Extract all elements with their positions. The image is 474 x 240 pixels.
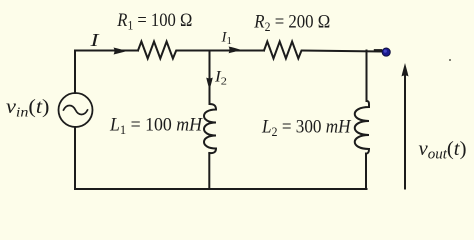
resistor R1 [138,42,179,59]
inductor L1 coil [204,104,216,153]
inductor L2 bottom wire [365,154,367,190]
svg-text:I: I [89,30,100,50]
current arrow I2 [206,77,213,90]
inductor L1 bottom wire [208,153,210,189]
svg-text:L2 = 300 mH: L2 = 300 mH [261,118,352,140]
resistor R2 [264,42,302,59]
wire bottom [75,188,367,190]
wire left vertical lower [74,127,76,189]
voltage source Vin circle [59,93,93,127]
current arrow I1 [229,47,242,54]
speck artifact [449,59,451,61]
wire R2 to output node [302,51,384,52]
wire overdraw step before node [375,49,382,51]
svg-text:vin(t): vin(t) [6,97,50,121]
svg-text:I2: I2 [214,69,227,88]
node output blue dot [382,48,390,56]
inductor L2 branch top wire [366,51,368,102]
inductor L1 branch top wire [209,51,211,105]
voltage source sine [64,106,88,115]
svg-text:I1: I1 [220,29,232,47]
current arrow I [114,48,128,55]
svg-text:R1 = 100 Ω: R1 = 100 Ω [116,11,192,33]
wire R1 to R2 [179,50,264,52]
svg-text:R2 = 200 Ω: R2 = 200 Ω [253,13,330,35]
svg-text:L1 = 100 mH: L1 = 100 mH [109,116,204,138]
inductor L2 coil [355,101,369,154]
svg-text:vout(t): vout(t) [419,138,467,163]
vout arrow shaft [404,74,406,189]
wire top left segment [75,51,138,94]
vout arrowhead [402,63,409,77]
